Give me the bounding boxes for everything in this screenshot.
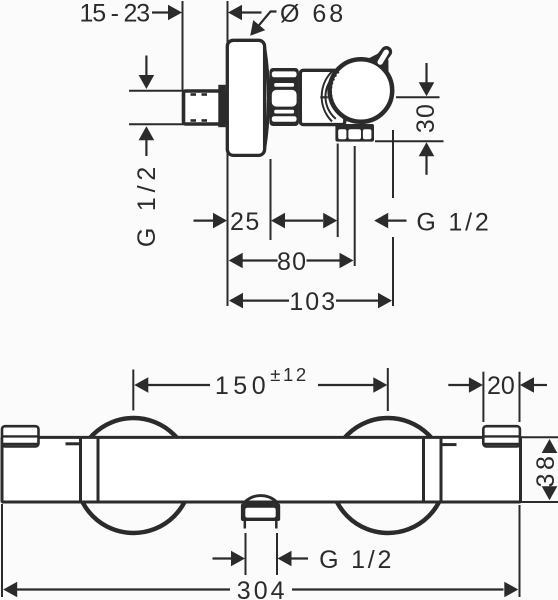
outlet window right <box>363 129 372 139</box>
right valve block edge 2 <box>440 437 443 502</box>
dim 20 arrow right <box>469 377 483 393</box>
150-dim ext line right <box>387 368 389 411</box>
dim 25 tail stem <box>285 220 324 222</box>
pipe nipple <box>184 91 225 124</box>
dim 38 arrow up <box>542 439 558 453</box>
left wall cap line 2 <box>3 443 38 445</box>
dim 25 arrow left <box>271 213 285 229</box>
dim 80 stem right <box>307 259 341 261</box>
svg-text:304: 304 <box>237 577 288 600</box>
left dim arrow down stem <box>145 56 147 77</box>
right 30 dim arrow down <box>419 82 435 96</box>
nut band 1 <box>272 71 297 77</box>
G1/2 ext line right <box>276 533 278 575</box>
nut body <box>270 68 299 126</box>
right wall cap <box>483 426 520 446</box>
dim 304 arrow left <box>3 582 17 598</box>
20-dim ext line right upper <box>519 372 521 422</box>
dim 150 stem left <box>148 384 211 386</box>
20-dim ext line left <box>482 372 484 422</box>
dim 20 stem left <box>448 384 469 386</box>
G1/2 ext line left <box>245 533 247 575</box>
304 ext line left <box>1 504 3 597</box>
dim G1/2 right arrow left <box>374 213 388 229</box>
leader line D68 <box>253 12 277 34</box>
extension line wall plane (15-23 left) <box>182 1 184 90</box>
svg-text:30: 30 <box>412 103 440 133</box>
extension line disc rear x=270.5 <box>270 159 272 240</box>
dim 103 stem left <box>242 300 289 302</box>
handle knurl dashes <box>331 72 339 106</box>
bar bottom edge extension <box>521 501 558 503</box>
right 30 dim arrow up <box>419 142 435 156</box>
dim 150 arrow right <box>373 377 387 393</box>
outlet nipple right edge <box>275 521 278 529</box>
dim G1/2 arrow left <box>278 551 292 567</box>
left dim arrow down <box>139 75 155 89</box>
left valve block edge 1 <box>79 437 82 502</box>
escutcheon disc side bulge <box>265 48 269 149</box>
dim 20 stem right <box>534 384 548 386</box>
nut band 4 <box>274 110 294 114</box>
svg-text:G 1/2: G 1/2 <box>133 162 161 247</box>
dimension 15-23 stem left <box>152 11 171 13</box>
escutcheon disc body <box>227 40 264 155</box>
left dim arrow up <box>139 126 155 140</box>
lever white core <box>380 52 386 62</box>
extension line pipe top y=90.8 <box>129 90 184 92</box>
svg-text:15 - 23: 15 - 23 <box>80 0 150 28</box>
extension line outlet centre x=354.7 <box>354 146 356 266</box>
dimension 15-23 stem right <box>241 11 262 13</box>
nut band 5 <box>272 116 297 122</box>
right knob circle <box>331 418 446 533</box>
dimension 15-23 arrow left <box>228 5 242 21</box>
dim 150 stem right <box>318 384 375 386</box>
svg-text:150: 150 <box>215 372 270 400</box>
right wall cap line 2 <box>484 443 519 445</box>
pipe thread tick 4 <box>202 119 208 122</box>
svg-text:20: 20 <box>487 372 515 400</box>
dim 103 arrow left <box>229 293 243 309</box>
304 ext line right <box>519 505 521 597</box>
svg-text:Ø 68: Ø 68 <box>280 0 346 28</box>
svg-text:103: 103 <box>289 288 337 316</box>
left wall cap <box>2 426 39 446</box>
extension line 30-dim bottom y=141.3 <box>375 140 444 142</box>
outlet dome arc <box>245 496 277 502</box>
handle cone arc outer <box>322 71 333 122</box>
right 30 dim lower stem <box>425 155 427 175</box>
lever black <box>375 52 387 68</box>
nut band 2 <box>274 83 294 87</box>
dim 304 stem left <box>17 588 231 590</box>
dim 25 stem left <box>194 220 214 222</box>
dim G1/2 right stem <box>388 220 407 222</box>
extension line 30-dim top y=97.3 <box>396 96 440 98</box>
dim 20 arrow left <box>520 377 534 393</box>
outlet window left <box>338 129 346 139</box>
left dim arrow up stem <box>145 139 147 156</box>
bar top edge extension <box>521 436 558 438</box>
svg-text:G 1/2: G 1/2 <box>416 208 491 236</box>
pipe collar <box>218 85 226 127</box>
dim 80 arrow right <box>340 253 354 269</box>
dimension 15-23 arrow right <box>168 5 182 21</box>
dim 304 arrow right <box>504 582 518 598</box>
extension line outlet left x=337.7 <box>337 144 339 238</box>
dim 80 arrow left <box>229 253 243 269</box>
outlet flange window <box>245 508 275 518</box>
dim 150 arrow left <box>134 377 148 393</box>
mixer bar <box>2 437 521 502</box>
left valve block edge 2 <box>97 437 100 502</box>
dim 25 arrow right <box>213 213 227 229</box>
outlet window middle <box>348 129 361 139</box>
handle axis tick <box>320 96 328 98</box>
leader arrow D68 <box>250 20 265 36</box>
dim 103 arrow right <box>378 293 392 309</box>
svg-text:±12: ±12 <box>270 364 309 385</box>
150-dim ext line left <box>132 370 134 411</box>
dim 103 stem right <box>336 300 379 302</box>
dim G1/2 arrow right <box>231 551 245 567</box>
outlet block <box>335 124 374 142</box>
extension line handle right x=393 lower <box>392 237 394 306</box>
dim 25 tail arrow right <box>323 213 337 229</box>
pipe thread tick 1 <box>191 93 197 96</box>
handle cone arc inner <box>325 74 336 119</box>
right seam dash <box>441 443 457 446</box>
pipe thread tick 3 <box>191 119 197 122</box>
outlet nipple left edge <box>244 521 247 529</box>
extension line handle right x=393 upper <box>392 130 394 198</box>
right wall cap line 1 <box>484 435 519 437</box>
extension line pipe bottom y=124.2 <box>129 123 184 125</box>
dim 80 stem left <box>242 259 278 261</box>
bar bottom edge redraw <box>2 501 521 504</box>
valve body <box>300 70 345 124</box>
svg-text:25: 25 <box>230 208 261 236</box>
dim 304 stem right <box>292 588 504 590</box>
dim G1/2 stem left <box>213 557 233 559</box>
pipe thread tick 2 <box>202 93 208 96</box>
right 30 dim upper stem <box>425 63 427 84</box>
svg-text:G 1/2: G 1/2 <box>319 546 394 574</box>
handle knob <box>330 59 393 122</box>
lever base flare <box>369 53 389 72</box>
left knob circle <box>76 418 191 533</box>
svg-text:80: 80 <box>277 248 307 276</box>
right valve block edge 1 <box>422 437 425 502</box>
dim G1/2 stem right <box>291 557 308 559</box>
nut band 3 (barrel) <box>272 90 297 107</box>
left seam dash <box>66 442 81 445</box>
svg-text:38: 38 <box>532 452 558 487</box>
dim 38 arrow down <box>542 486 558 500</box>
outlet flange <box>241 504 280 522</box>
extension line escutcheon face x=227.5 <box>227 1 229 306</box>
left wall cap line 1 <box>3 435 38 437</box>
